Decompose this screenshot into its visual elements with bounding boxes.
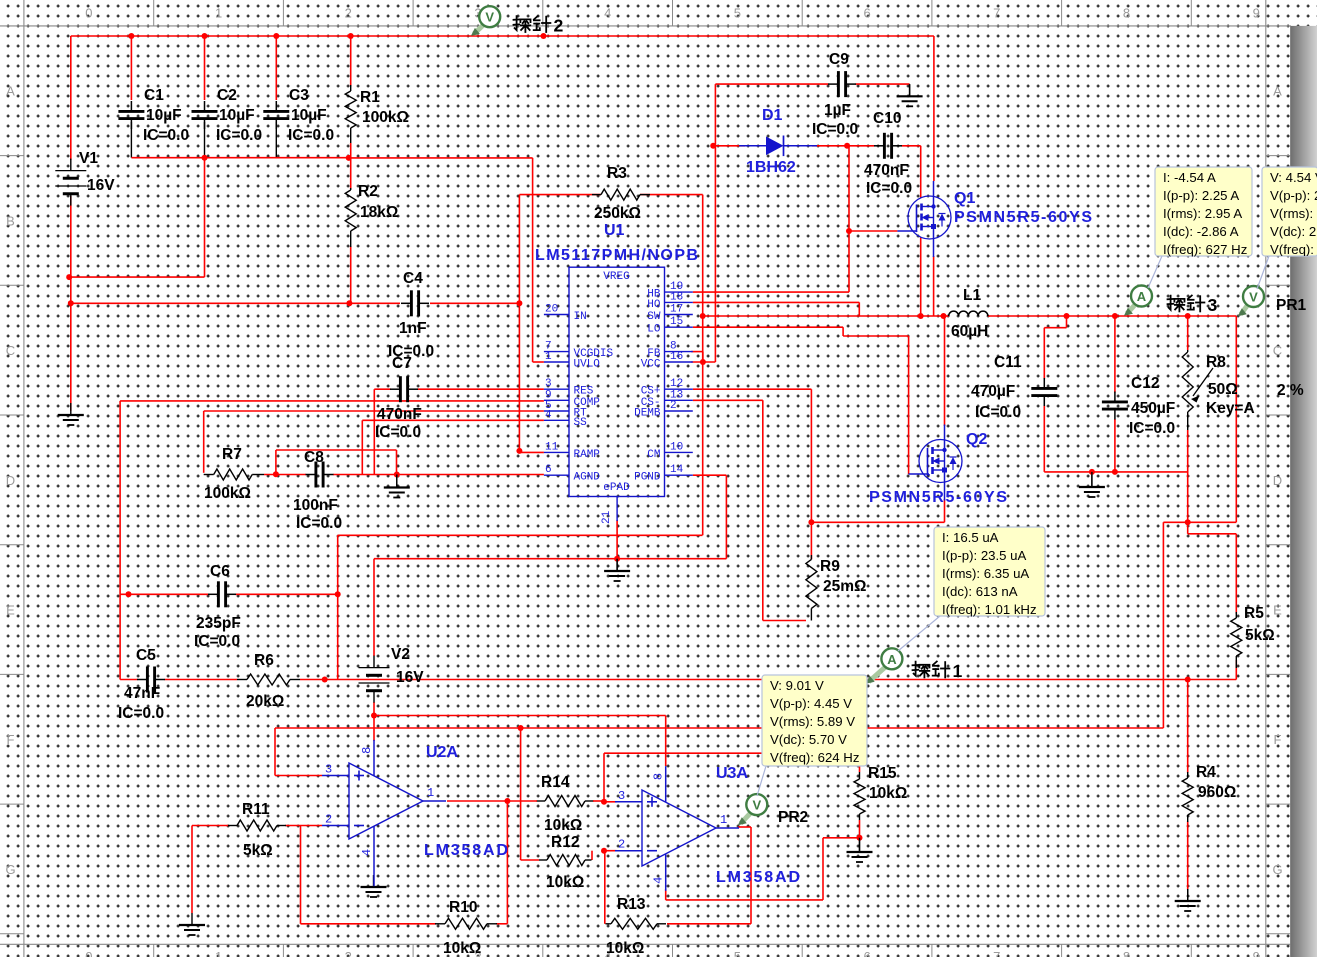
- wire R3 left wire: [519, 194, 601, 196]
- ground: [604, 559, 630, 581]
- wire R3 right wire: [640, 194, 703, 196]
- svg-text:8: 8: [1123, 6, 1130, 21]
- node R12 tap node: [518, 725, 524, 731]
- svg-text:F: F: [7, 732, 15, 747]
- wire bus down: [204, 158, 206, 277]
- node AGND gnd: [394, 472, 400, 478]
- svg-text:IC=0.0: IC=0.0: [975, 404, 1021, 421]
- wire C12 lower: [1114, 419, 1116, 472]
- svg-text:16: 16: [670, 351, 683, 363]
- node U2A out: [504, 798, 510, 804]
- node U3A pin2: [601, 848, 607, 854]
- node RAMP tap: [516, 300, 522, 306]
- wire V2 top lead: [373, 559, 375, 656]
- wire C10 to SW b: [920, 237, 922, 316]
- wire probe1 line b: [165, 679, 238, 681]
- svg-text:100kΩ: 100kΩ: [362, 109, 409, 126]
- wire C2 branch: [204, 36, 206, 100]
- resistor R14: [536, 774, 594, 834]
- node V2 bottom: [371, 713, 377, 719]
- resistor R3: [592, 165, 650, 222]
- wire Q1 gate blue lead: [897, 231, 916, 232]
- svg-text:1µF: 1µF: [824, 102, 851, 119]
- svg-text:D: D: [6, 473, 15, 488]
- wire Q2 source lead: [944, 499, 946, 522]
- ground: [897, 84, 923, 106]
- wire R9 bottom wire: [763, 620, 806, 622]
- svg-text:960Ω: 960Ω: [1198, 784, 1236, 801]
- wire C3 branch: [275, 36, 277, 100]
- svg-text:IC=0.0: IC=0.0: [866, 180, 912, 197]
- wire D1 C10 line c: [902, 145, 921, 147]
- svg-text:1: 1: [545, 351, 552, 363]
- wire U2A pin2 wire b: [285, 825, 322, 827]
- svg-text:I(rms): 2.95 A: I(rms): 2.95 A: [1163, 206, 1242, 221]
- svg-text:C: C: [1273, 343, 1282, 358]
- wire R11 ground drop: [191, 826, 193, 914]
- wire HO drop: [858, 302, 860, 316]
- svg-text:G: G: [5, 862, 15, 877]
- svg-text:V(dc): 2.86: V(dc): 2.86: [1270, 224, 1317, 239]
- wire R13 line: [667, 923, 751, 925]
- wire C6 line a: [120, 593, 208, 595]
- svg-text:C10: C10: [873, 110, 901, 127]
- scrollbar gradient strip: [1291, 26, 1317, 957]
- battery V1: [55, 150, 115, 206]
- svg-text:PR2: PR2: [778, 809, 808, 826]
- wire UVLO stub wire: [533, 361, 544, 363]
- svg-text:IC=0.0: IC=0.0: [143, 127, 189, 144]
- wire R14 line b: [593, 800, 604, 802]
- wire U3A feedback drop: [750, 827, 752, 924]
- wire R7C8 loop top: [276, 449, 397, 451]
- svg-text:V(p-p): 4.45 V: V(p-p): 4.45 V: [770, 696, 852, 711]
- node Q2 drain tap: [941, 313, 947, 319]
- node C8 left: [273, 471, 279, 477]
- wire C11C12 gnd line: [1044, 471, 1187, 473]
- wire LO wire drop: [842, 327, 844, 336]
- wire plus input rail: [275, 727, 1163, 729]
- node C10 tap: [918, 313, 924, 319]
- svg-text:V: V: [1249, 290, 1258, 305]
- svg-text:21: 21: [601, 510, 613, 524]
- svg-text:R5: R5: [1244, 605, 1264, 622]
- svg-text:60µH: 60µH: [951, 323, 988, 340]
- svg-text:LM5117PMH/NOPB: LM5117PMH/NOPB: [535, 247, 698, 264]
- svg-text:1: 1: [215, 949, 222, 957]
- capacitor C4: [388, 270, 434, 360]
- svg-text:8: 8: [1123, 949, 1130, 957]
- wire FB jog: [702, 352, 704, 362]
- svg-text:9: 9: [1253, 949, 1260, 957]
- wire C9-D1-VCC column: [714, 84, 716, 362]
- svg-text:10kΩ: 10kΩ: [606, 940, 644, 957]
- capacitor C8: [293, 449, 342, 532]
- svg-text:2: 2: [325, 813, 332, 827]
- wire SW net horizontal: [338, 534, 703, 536]
- wire U3A out wire: [738, 826, 751, 828]
- svg-text:U3A: U3A: [716, 765, 748, 782]
- svg-text:IC=0.0: IC=0.0: [296, 515, 342, 532]
- svg-text:C2: C2: [217, 87, 237, 104]
- svg-text:SS: SS: [574, 417, 588, 429]
- svg-text:L1: L1: [963, 287, 981, 304]
- svg-text:1: 1: [953, 661, 963, 681]
- wire Q2 drain lead: [944, 316, 946, 426]
- wire VIN top rail: [71, 35, 934, 37]
- node FB-VCC: [700, 359, 706, 365]
- svg-text:R14: R14: [541, 774, 570, 791]
- wire loop right: [396, 450, 398, 474]
- svg-text:R7: R7: [222, 446, 242, 463]
- svg-text:IC=0.0: IC=0.0: [194, 633, 240, 650]
- svg-text:D: D: [1273, 473, 1282, 488]
- svg-text:C: C: [6, 343, 15, 358]
- svg-text:PR1: PR1: [1276, 297, 1307, 314]
- node C6 right: [335, 591, 341, 597]
- node R1 top: [348, 33, 354, 39]
- svg-text:DEMB: DEMB: [634, 408, 661, 420]
- svg-text:17: 17: [670, 304, 683, 316]
- svg-text:R2: R2: [358, 183, 378, 200]
- wire R12 jog: [591, 851, 593, 860]
- wire CS+ R9 column: [810, 389, 812, 559]
- node R5 node: [1185, 519, 1191, 525]
- wire R13 up: [604, 851, 606, 924]
- svg-text:R8: R8: [1206, 354, 1226, 371]
- transistor Q2: [869, 425, 1007, 507]
- svg-text:V1: V1: [79, 150, 98, 167]
- wire RT to R7: [203, 411, 205, 473]
- svg-text:100nF: 100nF: [293, 497, 338, 514]
- wire R5 jog v: [1187, 522, 1189, 534]
- battery V2: [359, 646, 425, 703]
- node R4 top: [1185, 677, 1191, 683]
- svg-text:V: 4.54 V: V: 4.54 V: [1270, 170, 1317, 185]
- svg-text:IC=0.0: IC=0.0: [216, 127, 262, 144]
- node R2 bottom: [346, 300, 352, 306]
- resistor R10: [435, 899, 497, 957]
- svg-text:V: V: [485, 10, 494, 25]
- svg-text:I(dc): -2.86 A: I(dc): -2.86 A: [1163, 224, 1239, 239]
- svg-text:2: 2: [345, 6, 352, 21]
- svg-text:B: B: [6, 213, 15, 228]
- resistor R9: [806, 555, 867, 621]
- wire RT line: [204, 410, 544, 412]
- svg-text:10: 10: [670, 441, 683, 453]
- capacitor C7: [375, 355, 422, 441]
- node C3 top: [273, 33, 279, 39]
- wire D1 C10 line a: [713, 145, 745, 147]
- wire C11 top tie: [1066, 316, 1068, 328]
- svg-text:4: 4: [604, 6, 611, 21]
- svg-text:100kΩ: 100kΩ: [204, 485, 251, 502]
- node C11 tap: [1064, 313, 1070, 319]
- resistor R12: [539, 834, 592, 891]
- svg-text:470µF: 470µF: [971, 383, 1015, 400]
- measurement box tails: [757, 256, 1269, 796]
- svg-text:C5: C5: [136, 647, 156, 664]
- wire V1 bottom to ground: [70, 196, 72, 411]
- svg-text:2: 2: [670, 400, 677, 412]
- wire C7 drop: [373, 389, 375, 474]
- svg-text:10kΩ: 10kΩ: [544, 817, 582, 834]
- svg-text:4: 4: [360, 849, 374, 856]
- wire CS- column: [762, 400, 764, 620]
- measurement box VPR1: [1262, 167, 1317, 257]
- svg-text:7: 7: [993, 949, 1000, 957]
- svg-text:V(rms): 2.95: V(rms): 2.95: [1270, 206, 1317, 221]
- wire R5 top lead: [1235, 534, 1237, 614]
- ground: [361, 875, 387, 897]
- wire ePAD wire: [616, 520, 618, 559]
- wire C8-AGND line: [333, 474, 544, 476]
- wire C9 line b: [856, 83, 910, 85]
- svg-text:C11: C11: [994, 354, 1022, 371]
- op-amp U3A: [615, 765, 800, 891]
- capacitor C6: [194, 563, 241, 650]
- resistor R6: [237, 652, 300, 710]
- svg-text:5kΩ: 5kΩ: [1245, 627, 1275, 644]
- wire COMP left drop: [119, 401, 121, 680]
- svg-text:Q1: Q1: [954, 190, 975, 207]
- transistor Q1: [908, 181, 1092, 257]
- wire R4 to ground: [1187, 821, 1189, 890]
- svg-text:V: V: [752, 798, 761, 813]
- svg-text:R9: R9: [820, 558, 840, 575]
- svg-text:R12: R12: [551, 834, 579, 851]
- node RAMP corner: [516, 448, 522, 454]
- wire CS- stub wire: [693, 399, 763, 401]
- svg-text:10kΩ: 10kΩ: [546, 874, 584, 891]
- svg-text:1: 1: [215, 6, 222, 21]
- svg-text:16V: 16V: [87, 177, 115, 194]
- ground: [179, 913, 205, 935]
- svg-text:0: 0: [85, 949, 92, 957]
- wire R15 link drop: [822, 838, 824, 900]
- wire R5 bottom lead: [1235, 660, 1237, 680]
- ground: [1079, 475, 1105, 497]
- svg-text:R3: R3: [607, 165, 627, 182]
- svg-text:V(p-p): 2.25: V(p-p): 2.25: [1270, 188, 1317, 203]
- svg-text:HO: HO: [647, 299, 661, 311]
- svg-text:I(freq): 1.01 kHz: I(freq): 1.01 kHz: [942, 602, 1037, 617]
- resistor R7: [204, 446, 264, 502]
- wire R12 line: [521, 859, 539, 861]
- capacitor C12: [1102, 375, 1175, 437]
- capacitor C3: [263, 87, 334, 144]
- svg-text:C6: C6: [210, 563, 230, 580]
- wire Q1 drain column: [933, 36, 935, 181]
- ground: [1175, 889, 1201, 911]
- svg-text:C8: C8: [304, 449, 324, 466]
- capacitor C9: [812, 51, 858, 138]
- svg-text:I(freq): 627 Hz: I(freq): 627 Hz: [1163, 242, 1247, 257]
- wire C10 to SW: [920, 146, 922, 198]
- wire bootstrap column: [848, 146, 850, 292]
- wire SW to L1: [702, 315, 949, 317]
- wire pin3 riser: [603, 753, 605, 802]
- svg-text:PSMN5R5-60YS: PSMN5R5-60YS: [954, 209, 1092, 226]
- svg-text:16V: 16V: [396, 669, 424, 686]
- svg-text:IN: IN: [574, 311, 587, 323]
- wire Q2 gate column: [908, 336, 910, 474]
- svg-text:6: 6: [863, 949, 870, 957]
- inductor L1: [949, 287, 989, 340]
- probe V probe tanzhen2: [471, 6, 564, 36]
- svg-text:R1: R1: [360, 89, 380, 106]
- svg-text:U2A: U2A: [426, 744, 458, 761]
- svg-text:10µF: 10µF: [146, 107, 182, 124]
- wire C11 lower: [1043, 406, 1045, 472]
- svg-text:ePAD: ePAD: [603, 482, 630, 494]
- svg-text:RAMP: RAMP: [574, 449, 601, 461]
- node D1 anode: [710, 143, 716, 149]
- wire R15 feed line: [604, 752, 860, 754]
- probe A probe tanzhen1: [866, 648, 963, 683]
- wire U3A pin4 red: [665, 889, 667, 900]
- resistor R4: [1182, 764, 1236, 822]
- svg-text:V(freq): 624 Hz: V(freq): 624 Hz: [770, 750, 859, 765]
- svg-text:0: 0: [85, 6, 92, 21]
- node C1 top: [128, 33, 134, 39]
- wire AGND-PGND rail: [374, 558, 726, 560]
- node bus: [202, 155, 208, 161]
- wire R10 line b: [496, 923, 507, 925]
- diode D1: [739, 107, 817, 176]
- node C11 gnd: [1089, 469, 1095, 475]
- svg-text:235pF: 235pF: [196, 615, 241, 632]
- wire U2A pin3 drop: [274, 728, 276, 776]
- node R1R2: [346, 155, 352, 161]
- ground lead segments: [397, 84, 1188, 901]
- svg-text:1: 1: [720, 813, 727, 827]
- wire SS to C8: [361, 420, 363, 474]
- resistor R5: [1231, 605, 1275, 668]
- wire PGND drop: [725, 475, 727, 559]
- svg-text:470nF: 470nF: [864, 162, 909, 179]
- wire U2A pin3 wire: [275, 775, 322, 777]
- svg-text:20kΩ: 20kΩ: [246, 693, 284, 710]
- wire probe1 line c: [300, 679, 1236, 681]
- svg-text:IC=0.0: IC=0.0: [812, 121, 858, 138]
- svg-text:R4: R4: [1196, 764, 1216, 781]
- resistor R1: [345, 85, 409, 143]
- measurement box I probe1: [934, 527, 1045, 617]
- wire U2A feedback drop: [506, 801, 508, 924]
- svg-text:C3: C3: [289, 87, 309, 104]
- svg-text:V: 9.01 V: V: 9.01 V: [770, 678, 824, 693]
- svg-text:10kΩ: 10kΩ: [869, 785, 907, 802]
- svg-text:AGND: AGND: [574, 472, 601, 484]
- wire loop left: [275, 450, 277, 474]
- wire C4 line: [71, 302, 400, 304]
- wire Q1 gate wire: [849, 230, 897, 232]
- node D1 cathode: [844, 143, 850, 149]
- svg-text:I(p-p): 23.5 uA: I(p-p): 23.5 uA: [942, 548, 1026, 563]
- wire Vplus rail: [374, 715, 666, 717]
- svg-text:1nF: 1nF: [399, 320, 427, 337]
- wire R8 bottom: [1187, 430, 1189, 522]
- wire R5 jog h: [1188, 533, 1237, 535]
- svg-text:A: A: [887, 652, 897, 667]
- svg-text:U1: U1: [604, 222, 625, 239]
- svg-text:3: 3: [325, 763, 332, 777]
- wire C9 line a: [715, 83, 828, 85]
- svg-text:15: 15: [670, 316, 683, 328]
- wire RES C7 line: [418, 388, 544, 390]
- svg-text:Q2: Q2: [966, 431, 987, 448]
- wire C6 line b: [236, 593, 338, 595]
- capacitor C5: [118, 647, 165, 722]
- wire C1 branch: [130, 36, 132, 100]
- resistor R11: [228, 801, 286, 859]
- svg-text:IC=0.0: IC=0.0: [375, 424, 421, 441]
- wire U3A pin8 red: [665, 716, 667, 767]
- node R8 tap: [1185, 313, 1191, 319]
- svg-text:3: 3: [618, 789, 625, 803]
- svg-text:2: 2: [618, 838, 625, 852]
- wire C11 branch: [1043, 328, 1045, 379]
- node U3A pin3: [601, 799, 607, 805]
- capacitor C10: [864, 110, 912, 197]
- wire R15 top lead: [859, 753, 861, 772]
- svg-text:E: E: [6, 603, 15, 618]
- capacitor C11: [971, 354, 1057, 421]
- wire U3A pin4 wire: [666, 899, 823, 901]
- wire R1R2 junction to UVLO run: [349, 157, 533, 159]
- wire D1 C10 line b: [812, 145, 875, 147]
- wire VCC wire: [691, 361, 715, 363]
- svg-text:A: A: [1137, 289, 1147, 304]
- svg-text:F: F: [1274, 732, 1282, 747]
- svg-text:D1: D1: [762, 107, 783, 124]
- svg-text:5: 5: [734, 949, 741, 957]
- op-amp U1 LM5117PMH/NOPB: [535, 222, 698, 524]
- resistor R8 potentiometer: [1182, 350, 1304, 430]
- svg-text:I: -4.54 A: I: -4.54 A: [1163, 170, 1216, 185]
- wire PGND stub wire: [693, 474, 727, 476]
- wire COMP line: [120, 400, 544, 402]
- svg-text:I(p-p): 2.25 A: I(p-p): 2.25 A: [1163, 188, 1239, 203]
- node IN tap: [541, 33, 547, 39]
- svg-text:V(rms): 5.89 V: V(rms): 5.89 V: [770, 714, 855, 729]
- wire C11 jog: [1044, 327, 1066, 329]
- wire PR1 column: [1235, 316, 1237, 522]
- svg-text:A: A: [1273, 84, 1282, 99]
- wire Q1 source lead red: [933, 256, 935, 316]
- svg-text:C12: C12: [1131, 375, 1159, 392]
- svg-text:UVLO: UVLO: [574, 359, 601, 371]
- svg-text:C9: C9: [829, 51, 849, 68]
- svg-text:I: 16.5 uA: I: 16.5 uA: [942, 530, 999, 545]
- wire probe1 line a: [120, 679, 137, 681]
- svg-text:I(rms): 6.35 uA: I(rms): 6.35 uA: [942, 566, 1029, 581]
- ground: [384, 476, 410, 498]
- wire R2 bottom lead: [350, 246, 352, 303]
- wire R10 line a: [301, 923, 437, 925]
- svg-text:R11: R11: [242, 801, 270, 818]
- node C12 bottom: [1112, 469, 1118, 475]
- wire SW-C6 drop: [337, 535, 339, 679]
- wire UVLO drop: [532, 158, 534, 362]
- capacitor C2: [192, 87, 263, 144]
- svg-text:R15: R15: [868, 765, 897, 782]
- wire HB wire: [693, 291, 849, 293]
- wire V1 top lead: [70, 36, 72, 160]
- svg-text:5kΩ: 5kΩ: [243, 842, 273, 859]
- svg-text:C1: C1: [144, 87, 164, 104]
